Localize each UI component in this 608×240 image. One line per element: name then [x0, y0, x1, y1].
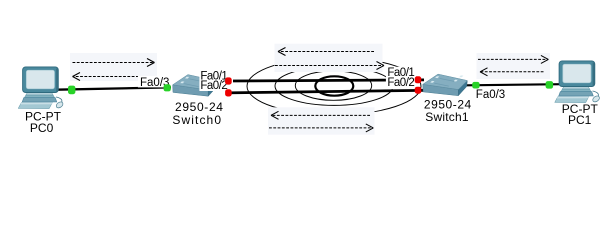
PC1 icon: [555, 61, 601, 103]
wire PC0 to Switch0: [56, 87, 171, 89]
arrow right (Switch1 to PC1): [478, 55, 548, 63]
arrow group right-link background: [477, 53, 551, 79]
label box Fa0/1 Fa0/2 at Switch1: [386, 67, 416, 89]
svg-text:PC0: PC0: [30, 121, 54, 135]
loop ellipse E1 (inner thick): [315, 76, 353, 95]
switch Switch1 icon: [423, 74, 468, 96]
arrow left (PC1 to Switch1): [480, 68, 544, 76]
label box Fa0/3 at Switch0 (left link): [138, 76, 171, 88]
wire Switch1 to PC1: [467, 84, 563, 85]
link status dot red Switch1 Fa0/2: [415, 87, 422, 94]
svg-text:Fa0/3: Fa0/3: [476, 89, 505, 101]
link status dot green at Switch0 left: [164, 84, 171, 91]
svg-text:Fa0/2: Fa0/2: [387, 77, 414, 89]
arrow right (center top): [275, 62, 384, 70]
arrow left (center top): [278, 48, 374, 56]
loop ellipse E3: [275, 67, 393, 106]
link status dot red Switch0 Fa0/1: [225, 77, 232, 84]
svg-text:Fa0/2: Fa0/2: [200, 80, 227, 92]
trunk wire Fa0/1 (top) Switch0-Switch1: [226, 80, 424, 81]
PC0 icon: [18, 67, 64, 109]
arrow group left-link background: [70, 53, 157, 81]
link status dot red Switch1 Fa0/1: [415, 76, 422, 83]
arrow left (center bottom): [271, 111, 370, 119]
arrow right (PC0 to Switch0): [73, 59, 155, 67]
svg-text:Switch1: Switch1: [425, 110, 469, 124]
trunk wire Fa0/2 (bottom) Switch0-Switch1: [226, 90, 424, 93]
loop ellipse E2: [295, 71, 371, 100]
arrow group center-bottom background: [268, 107, 375, 134]
link status dot red Switch0 Fa0/2: [225, 89, 232, 96]
link status dot green at PC1: [546, 81, 554, 89]
arrow group center-top background: [275, 44, 383, 72]
loop ellipse E4 (outer): [247, 57, 421, 114]
svg-text:Switch0: Switch0: [172, 113, 222, 127]
arrow right (center bottom): [269, 124, 373, 132]
link status dot green at Switch1 right: [472, 82, 479, 89]
arrow left (Switch0 to PC0): [73, 73, 139, 81]
label box Fa0/1 Fa0/2 at Switch0: [199, 70, 233, 91]
switch Switch0 icon: [173, 75, 218, 97]
label box Fa0/3 at Switch1 (right link): [475, 89, 504, 101]
svg-text:PC1: PC1: [568, 113, 592, 127]
link status dot green at PC0: [68, 86, 75, 95]
